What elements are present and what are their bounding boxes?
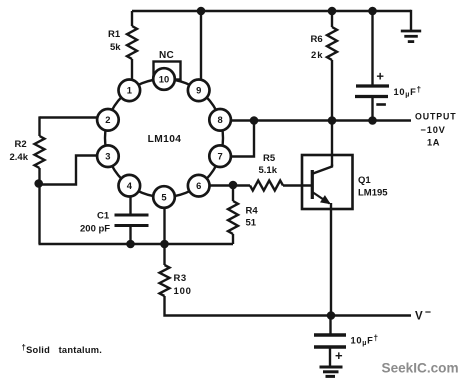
transistor Q1 NPN symbol	[312, 165, 332, 205]
svg-text:LM195: LM195	[358, 188, 388, 199]
svg-text:LM104: LM104	[148, 134, 182, 145]
node junction pin5 bottom	[160, 240, 169, 249]
IC U1 pin 10	[153, 68, 175, 90]
svg-text:V−: V−	[415, 306, 431, 322]
svg-text:+: +	[376, 69, 384, 84]
label C3 plus	[335, 348, 343, 363]
label C2 plus	[376, 69, 384, 84]
node junction pin8	[250, 116, 259, 125]
wire emitter down	[330, 203, 332, 316]
node junction R2 pin3	[34, 179, 43, 188]
label R3 value	[174, 273, 192, 297]
watermark SeekIC.com	[382, 361, 459, 376]
ground bottom	[320, 367, 343, 376]
svg-text:2.4k: 2.4k	[10, 152, 29, 163]
resistor R3	[160, 244, 412, 316]
capacitor C2 10uF output	[355, 11, 389, 120]
svg-text:R5: R5	[263, 153, 276, 164]
capacitor C1 200pF	[115, 196, 149, 244]
wire pin8 output line	[231, 119, 411, 122]
svg-text:51: 51	[246, 218, 257, 229]
svg-text:C1: C1	[97, 211, 110, 222]
wire pin7 up	[231, 121, 254, 157]
label R4 value	[246, 206, 259, 229]
svg-text:−10V: −10V	[421, 125, 446, 135]
label R2 value	[10, 139, 29, 163]
node junction top pin9	[197, 7, 206, 16]
label -10V	[421, 125, 446, 135]
svg-text:5k: 5k	[110, 42, 121, 53]
label R5 value	[259, 153, 278, 176]
NC tab box pin 10	[154, 62, 181, 80]
label 1A	[427, 138, 440, 148]
label V- terminal	[415, 306, 431, 322]
note solid tantalum	[22, 343, 103, 355]
svg-text:5.1k: 5.1k	[259, 165, 278, 176]
node junction R4 R5	[229, 181, 238, 190]
IC U1 pin 8	[209, 109, 231, 131]
IC U1 pin 4	[119, 175, 141, 197]
node junction R6 output	[328, 116, 337, 125]
IC U1 pin 6	[188, 175, 210, 197]
IC U1 pin 9	[188, 80, 210, 102]
capacitor C3 10uF bypass	[314, 316, 346, 367]
svg-text:Q1: Q1	[358, 175, 371, 186]
svg-text:5: 5	[161, 191, 166, 202]
svg-text:200 pF: 200 pF	[80, 224, 110, 235]
IC U1 pin 5	[153, 186, 175, 208]
svg-text:OUTPUT: OUTPUT	[415, 112, 457, 122]
wire collector up	[331, 121, 333, 167]
svg-text:9: 9	[196, 85, 201, 96]
svg-text:+: +	[335, 348, 343, 363]
resistor R5	[250, 181, 312, 191]
svg-text:10: 10	[159, 73, 169, 84]
svg-text:†Solid tantalum.: †Solid tantalum.	[22, 343, 103, 355]
label LM104	[148, 134, 182, 145]
IC U1 LM104 body circle	[105, 79, 223, 197]
wire pin5 down	[163, 207, 165, 244]
svg-text:10µF†: 10µF†	[394, 85, 422, 98]
node junction emitter Vminus	[327, 311, 336, 320]
label R6 value	[311, 34, 324, 61]
IC U1 pin 3	[97, 145, 119, 167]
label Q1	[358, 175, 388, 199]
node junction C2 output	[368, 116, 377, 125]
svg-text:1A: 1A	[427, 138, 440, 148]
IC U1 pin 1	[119, 80, 141, 102]
ground top right	[401, 10, 421, 42]
label OUTPUT	[415, 112, 457, 122]
IC U1 pin 2	[97, 109, 119, 131]
svg-text:R2: R2	[15, 139, 27, 150]
resistor R4	[228, 185, 238, 244]
svg-text:100: 100	[174, 286, 192, 297]
resistor R2	[35, 116, 45, 244]
svg-text:10µF†: 10µF†	[351, 334, 379, 347]
label C2 value	[394, 85, 422, 98]
svg-text:2: 2	[105, 114, 110, 125]
node junction top R6	[328, 7, 337, 16]
label C2 minus	[376, 103, 386, 106]
svg-text:2k: 2k	[311, 50, 324, 61]
wire top rail	[132, 10, 411, 13]
label NC	[159, 50, 174, 61]
svg-text:SeekIC.com: SeekIC.com	[382, 361, 459, 376]
svg-text:3: 3	[105, 151, 110, 162]
svg-text:6: 6	[196, 180, 201, 191]
svg-text:1: 1	[127, 85, 132, 96]
wire pin9 to top rail	[200, 11, 202, 80]
svg-text:R6: R6	[311, 34, 323, 45]
IC U1 pin 7	[209, 145, 231, 167]
svg-text:R3: R3	[174, 273, 187, 284]
svg-text:8: 8	[217, 114, 222, 125]
svg-text:7: 7	[217, 151, 222, 162]
resistor R6	[327, 11, 337, 120]
node junction C1 bottom	[126, 240, 135, 249]
wire pin6 right	[209, 184, 250, 186]
resistor R1	[127, 11, 137, 79]
label R1 value	[108, 29, 121, 53]
label C1 value	[80, 211, 110, 235]
svg-text:4: 4	[127, 180, 133, 191]
svg-text:R4: R4	[246, 206, 259, 217]
node junction top C2	[368, 7, 377, 16]
svg-text:R1: R1	[108, 29, 121, 40]
wire bottom left rail	[39, 243, 234, 246]
transistor Q1 box	[302, 155, 353, 209]
label C3 value	[351, 334, 379, 347]
wire pin3 left	[39, 156, 98, 185]
wire pin2 left	[40, 116, 98, 118]
svg-text:NC: NC	[159, 50, 174, 61]
